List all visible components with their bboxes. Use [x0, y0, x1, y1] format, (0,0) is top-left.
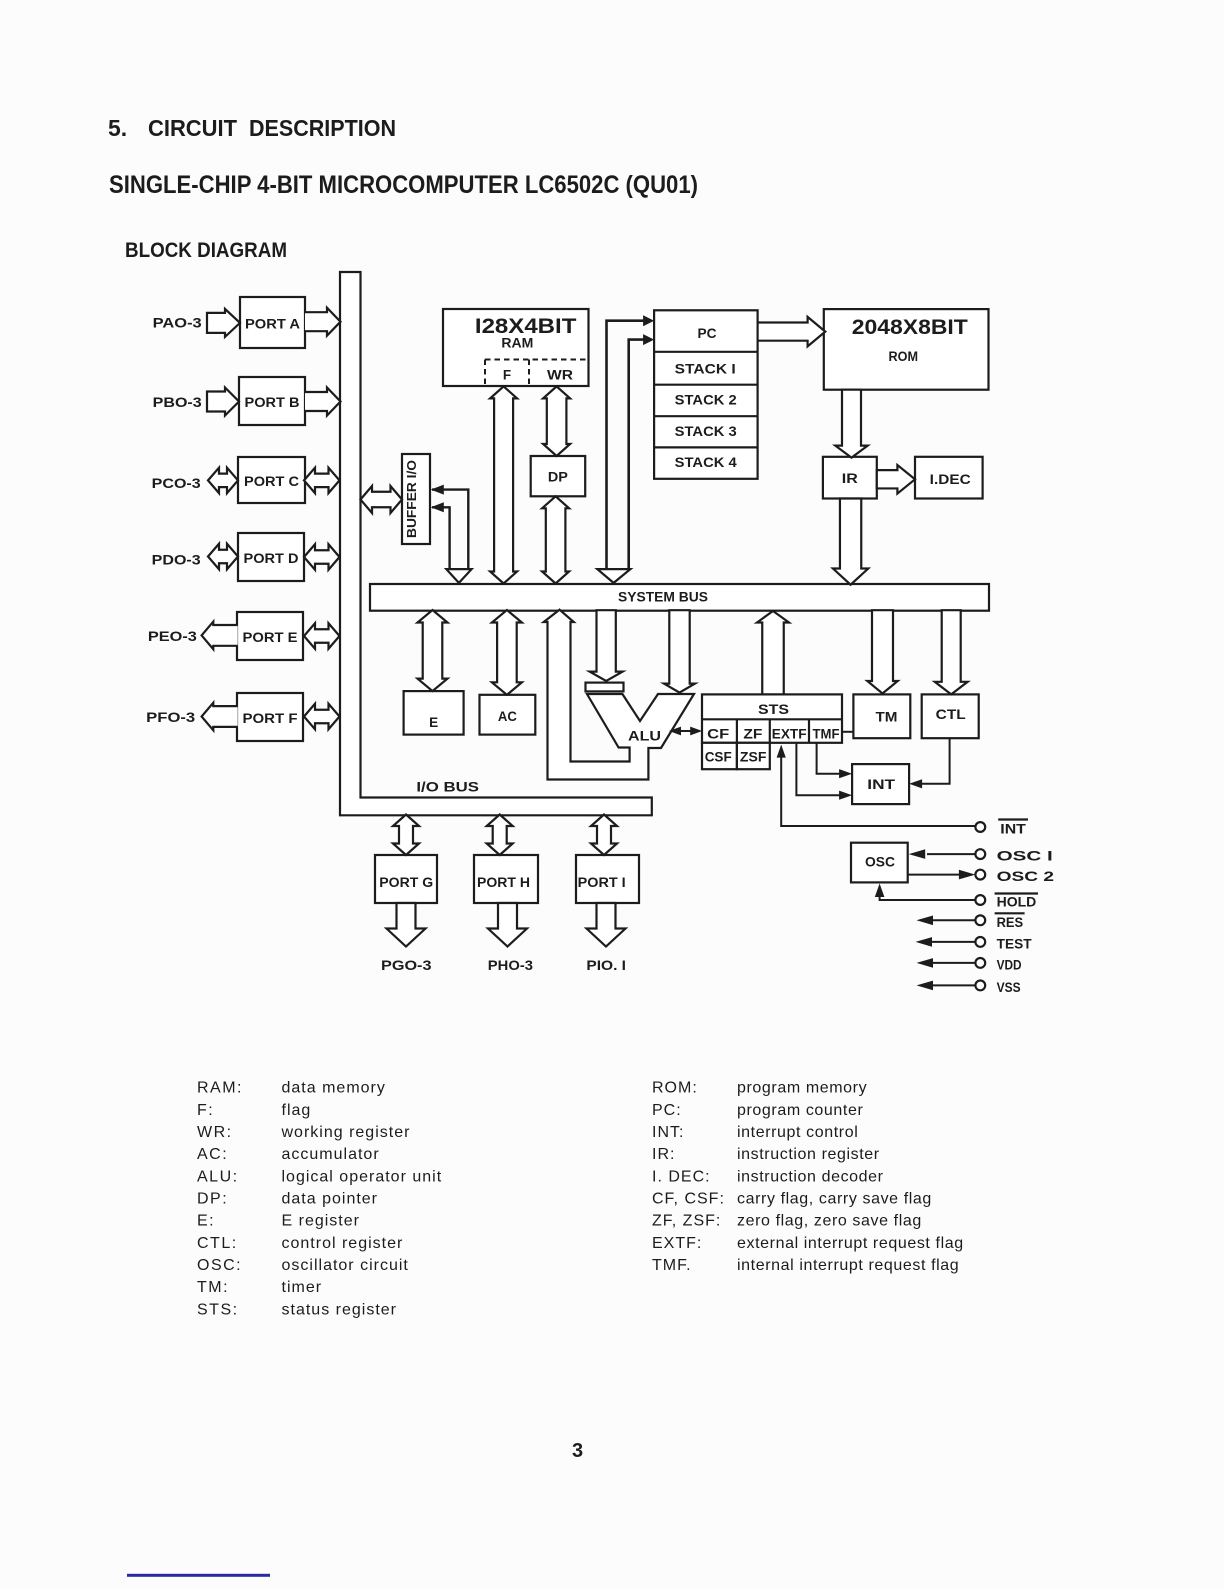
svg-text:F: F [503, 368, 511, 383]
svg-text:flag: flag [282, 1102, 312, 1119]
svg-text:working register: working register [281, 1124, 411, 1141]
svg-text:TMF: TMF [813, 727, 840, 742]
svg-text:AC:: AC: [197, 1146, 228, 1163]
svg-text:instruction decoder: instruction decoder [737, 1168, 884, 1185]
svg-text:data pointer: data pointer [282, 1190, 379, 1207]
svg-text:RAM: RAM [501, 336, 533, 351]
svg-text:INT:: INT: [652, 1124, 684, 1141]
svg-text:PORT F: PORT F [243, 711, 298, 726]
svg-text:PORT H: PORT H [477, 875, 530, 890]
svg-text:control register: control register [282, 1235, 404, 1252]
svg-text:DP:: DP: [197, 1190, 228, 1207]
svg-text:VDD: VDD [997, 957, 1022, 972]
svg-text:zero flag, zero save flag: zero flag, zero save flag [737, 1213, 922, 1230]
svg-text:SYSTEM BUS: SYSTEM BUS [618, 590, 708, 605]
svg-text:PORT A: PORT A [245, 317, 300, 332]
svg-text:IR: IR [842, 471, 858, 486]
svg-text:TMF.: TMF. [652, 1257, 692, 1274]
svg-text:CSF: CSF [705, 750, 732, 765]
svg-text:PCO-3: PCO-3 [152, 475, 201, 491]
svg-text:HOLD: HOLD [997, 895, 1037, 910]
svg-text:PORT G: PORT G [379, 875, 433, 890]
svg-text:oscillator circuit: oscillator circuit [282, 1257, 409, 1274]
svg-text:CTL:: CTL: [197, 1235, 238, 1252]
svg-text:PORT D: PORT D [244, 551, 299, 566]
svg-text:ZSF: ZSF [740, 750, 767, 765]
svg-text:status register: status register [282, 1301, 397, 1318]
svg-text:program memory: program memory [737, 1080, 867, 1097]
svg-text:BLOCK DIAGRAM: BLOCK DIAGRAM [125, 239, 287, 262]
svg-text:VSS: VSS [997, 980, 1021, 995]
svg-text:interrupt control: interrupt control [737, 1124, 858, 1141]
svg-text:data memory: data memory [282, 1080, 386, 1097]
svg-text:OSC: OSC [865, 855, 895, 870]
svg-text:SINGLE-CHIP 4-BIT MICROCOMPUT: SINGLE-CHIP 4-BIT MICROCOMPUTER LC6502C … [109, 171, 698, 199]
svg-text:3: 3 [572, 1440, 583, 1462]
svg-text:INT: INT [867, 777, 896, 792]
svg-text:internal interrupt request fla: internal interrupt request flag [737, 1257, 959, 1274]
svg-text:PORT B: PORT B [245, 395, 300, 410]
svg-text:ROM: ROM [889, 349, 919, 364]
svg-text:ZF, ZSF:: ZF, ZSF: [652, 1213, 721, 1230]
svg-text:E: E [429, 715, 438, 730]
svg-text:PORT I: PORT I [578, 875, 626, 890]
svg-text:PFO-3: PFO-3 [146, 709, 195, 725]
svg-text:INT: INT [1000, 822, 1026, 837]
svg-text:F:: F: [197, 1102, 214, 1119]
svg-text:2048X8BIT: 2048X8BIT [852, 316, 968, 339]
svg-text:PBO-3: PBO-3 [153, 394, 202, 410]
svg-text:I. DEC:: I. DEC: [652, 1168, 711, 1185]
svg-text:5.: 5. [108, 115, 127, 141]
svg-text:timer: timer [282, 1279, 323, 1296]
svg-text:ROM:: ROM: [652, 1080, 698, 1097]
svg-text:OSC I: OSC I [997, 849, 1053, 864]
svg-text:PORT E: PORT E [243, 630, 298, 645]
svg-text:RAM:: RAM: [197, 1080, 243, 1097]
svg-text:OSC:: OSC: [197, 1257, 242, 1274]
svg-text:CF, CSF:: CF, CSF: [652, 1190, 725, 1207]
svg-text:STACK 3: STACK 3 [675, 424, 738, 439]
svg-text:PORT C: PORT C [244, 474, 299, 489]
svg-text:I/O BUS: I/O BUS [416, 780, 479, 795]
svg-text:I.DEC: I.DEC [930, 472, 971, 487]
svg-text:DESCRIPTION: DESCRIPTION [249, 115, 396, 141]
svg-text:TM: TM [876, 710, 898, 725]
svg-text:IR:: IR: [652, 1146, 675, 1163]
svg-text:DP: DP [548, 470, 568, 485]
svg-text:PGO-3: PGO-3 [381, 957, 432, 973]
svg-text:TM:: TM: [197, 1279, 229, 1296]
svg-text:carry flag, carry save flag: carry flag, carry save flag [737, 1190, 932, 1207]
svg-text:STACK 4: STACK 4 [675, 455, 738, 470]
svg-text:ALU:: ALU: [197, 1168, 239, 1185]
svg-text:E:: E: [197, 1213, 215, 1230]
svg-text:PHO-3: PHO-3 [488, 957, 533, 973]
svg-text:OSC 2: OSC 2 [997, 869, 1054, 884]
svg-text:CTL: CTL [936, 707, 966, 722]
svg-text:external interrupt request fla: external interrupt request flag [737, 1235, 964, 1252]
svg-text:TEST: TEST [997, 936, 1033, 951]
svg-text:CIRCUIT: CIRCUIT [148, 115, 237, 141]
svg-text:PC:: PC: [652, 1102, 682, 1119]
svg-text:PIO. I: PIO. I [586, 957, 626, 973]
svg-text:STACK 2: STACK 2 [675, 393, 737, 408]
svg-text:WR: WR [547, 368, 573, 383]
svg-text:PC: PC [698, 326, 717, 341]
svg-text:RES: RES [997, 915, 1024, 930]
svg-text:STACK I: STACK I [675, 362, 736, 377]
svg-text:program counter: program counter [737, 1102, 863, 1119]
svg-text:E register: E register [282, 1213, 360, 1230]
svg-text:logical operator unit: logical operator unit [282, 1168, 443, 1185]
svg-text:accumulator: accumulator [282, 1146, 380, 1163]
svg-text:instruction register: instruction register [737, 1146, 880, 1163]
svg-text:EXTF:: EXTF: [652, 1235, 702, 1252]
svg-text:ALU: ALU [628, 729, 661, 744]
svg-text:PAO-3: PAO-3 [153, 315, 202, 331]
svg-text:EXTF: EXTF [772, 727, 807, 742]
svg-text:WR:: WR: [197, 1124, 233, 1141]
svg-text:PEO-3: PEO-3 [148, 628, 197, 644]
svg-text:PDO-3: PDO-3 [152, 552, 201, 568]
svg-text:STS: STS [758, 702, 789, 717]
svg-text:STS:: STS: [197, 1301, 239, 1318]
svg-text:CF: CF [707, 727, 729, 742]
svg-text:AC: AC [498, 709, 517, 724]
svg-text:BUFFER I/O: BUFFER I/O [405, 460, 419, 538]
svg-text:ZF: ZF [743, 727, 762, 742]
